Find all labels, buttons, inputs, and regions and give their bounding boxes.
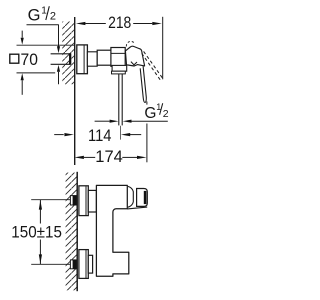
- union nut: [97, 50, 111, 65]
- svg-text:174: 174: [95, 148, 123, 166]
- dim 174: [74, 156, 84, 159]
- svg-text:2: 2: [50, 11, 56, 23]
- upper escutcheon: [79, 186, 88, 216]
- label G 1/2 (outlet): [95, 120, 110, 122]
- cartridge dome (top view): [125, 46, 144, 66]
- lever cap (front view): [137, 189, 148, 207]
- dashed lever lines (alt position): [144, 51, 163, 78]
- svg-text:218: 218: [108, 14, 131, 32]
- svg-text:2: 2: [163, 108, 169, 120]
- cartridge dome (front view): [128, 186, 133, 207]
- leader to pipe (right): [58, 25, 60, 47]
- svg-text:150±15: 150±15: [11, 223, 62, 241]
- escutcheon (top view): [77, 45, 88, 74]
- dim 218: [76, 22, 86, 25]
- body near edge under cartridge (front view): [127, 207, 147, 209]
- tube: [87, 52, 97, 66]
- dashed knob arc (lever alt position): [126, 41, 135, 46]
- dim 114: [120, 126, 122, 140]
- square symbol: [10, 54, 19, 63]
- svg-text:G: G: [28, 7, 41, 25]
- outlet elbow: [112, 65, 127, 71]
- svg-text:1: 1: [41, 6, 47, 17]
- pipe end dark bar: [69, 53, 71, 65]
- label underline: [27, 24, 59, 26]
- wall hatch (top view): [62, 22, 74, 85]
- lever cap dark bar: [144, 191, 147, 204]
- extension line B (escutcheon bottom): [17, 72, 56, 74]
- escutcheon inner line: [83, 45, 85, 73]
- outlet flange: [112, 71, 126, 74]
- dim 150±15 line: [39, 200, 41, 264]
- svg-text:G: G: [144, 105, 156, 122]
- lower union nut: [88, 255, 92, 273]
- text 150±15: [11, 224, 63, 240]
- mixer body (top view): [111, 48, 125, 67]
- lower escutcheon: [79, 250, 88, 279]
- upper inlet behind wall: [70, 196, 76, 205]
- wall surface line (front view): [76, 172, 78, 291]
- dim 218 right extension line: [162, 17, 164, 80]
- dim 174 right extension line: [146, 102, 148, 105]
- wall surface line (top view): [74, 17, 76, 165]
- extension line A (escutcheon top): [17, 44, 75, 46]
- lower inlet behind wall: [70, 260, 76, 269]
- v notch: [131, 62, 137, 65]
- supply pipe behind wall: [51, 54, 70, 65]
- mixer body (front view): [96, 185, 128, 276]
- lever (solid, down position): [140, 66, 146, 102]
- upper union nut: [88, 190, 96, 212]
- dim 150±15 extension lines: [31, 199, 70, 201]
- svg-text:70: 70: [21, 51, 38, 69]
- wall hatch (front view): [66, 173, 77, 291]
- svg-text:114: 114: [88, 127, 112, 145]
- dim 70 outside arrows: [21, 31, 23, 38]
- outlet pipe walls: [118, 74, 120, 126]
